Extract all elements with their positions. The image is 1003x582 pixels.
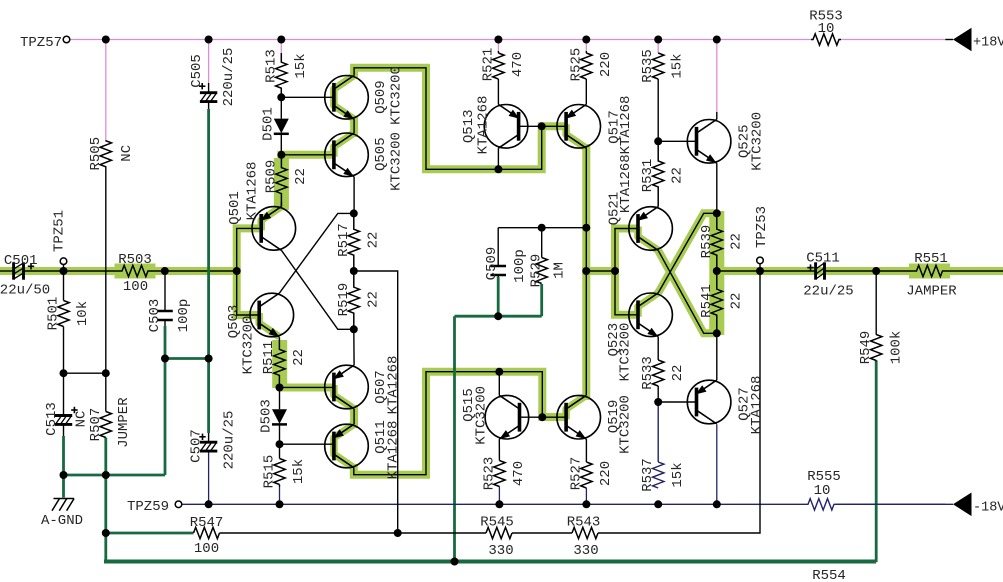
junctions +18V rail xyxy=(102,36,721,44)
svg-text:D501: D501 xyxy=(260,107,276,141)
resistor R545 330 xyxy=(480,515,514,560)
resistor R513 15k xyxy=(263,49,309,97)
transistor Q517 KTA1268 xyxy=(557,96,634,155)
svg-text:C507: C507 xyxy=(189,429,205,463)
wire signal path conductors xyxy=(0,68,1003,475)
transistor Q505 KTC3200 xyxy=(325,132,405,191)
svg-text:22: 22 xyxy=(293,168,309,185)
svg-text:22: 22 xyxy=(291,349,307,366)
svg-text:R519: R519 xyxy=(336,283,352,317)
transistor Q519 KTC3200 xyxy=(557,395,634,454)
resistor R507 JUMPER xyxy=(88,373,132,448)
svg-text:KTC3200: KTC3200 xyxy=(618,395,634,454)
svg-text:KTA1268: KTA1268 xyxy=(749,376,765,435)
resistor R509 22 xyxy=(263,155,308,207)
wire D503 to Q511 base xyxy=(280,443,334,445)
svg-text:R515: R515 xyxy=(262,455,278,489)
svg-text:10k: 10k xyxy=(75,301,91,326)
svg-text:C503: C503 xyxy=(147,299,163,333)
svg-text:R525: R525 xyxy=(568,48,584,82)
wire highlighted signal path xyxy=(0,68,1003,475)
svg-text:JUMPER: JUMPER xyxy=(116,397,132,448)
svg-text:TPZ51: TPZ51 xyxy=(52,210,68,252)
resistor R535 15k xyxy=(640,49,686,141)
svg-text:KTA1268: KTA1268 xyxy=(476,96,492,155)
svg-text:22u/50: 22u/50 xyxy=(0,283,50,299)
wire Q525 base xyxy=(658,140,696,142)
svg-text:R529: R529 xyxy=(529,254,545,288)
svg-text:22: 22 xyxy=(670,167,686,184)
wire Q501 emitter to R509 xyxy=(280,202,282,207)
svg-text:R531: R531 xyxy=(640,159,656,193)
svg-text:R537: R537 xyxy=(640,458,656,492)
svg-text:10: 10 xyxy=(814,483,831,499)
capacitor C503 100p xyxy=(147,271,192,332)
power -18V xyxy=(836,493,1003,517)
svg-text:NC: NC xyxy=(119,145,135,162)
wire Q525 collector xyxy=(716,112,718,119)
svg-text:D503: D503 xyxy=(259,399,275,433)
svg-text:22: 22 xyxy=(728,293,744,310)
svg-text:R527: R527 xyxy=(568,457,584,491)
transistor Q515 KTC3200 xyxy=(461,386,529,445)
svg-text:15k: 15k xyxy=(293,53,309,78)
transistor Q513 KTA1268 xyxy=(461,96,528,155)
resistor R525 220 xyxy=(568,48,614,105)
transistor Q521 KTA1268 xyxy=(607,154,673,250)
wire R513/D501 node to Q509 base xyxy=(281,96,334,98)
wire +18V rail (pink) xyxy=(70,40,945,141)
svg-text:470: 470 xyxy=(511,461,527,486)
transistor Q507 KTA1268 xyxy=(325,356,402,415)
svg-text:22: 22 xyxy=(365,291,381,308)
svg-text:KTC3200: KTC3200 xyxy=(618,323,634,382)
svg-text:KTA1268: KTA1268 xyxy=(245,162,261,221)
wire Q513 collector stub xyxy=(497,148,499,169)
junctions misc nodes xyxy=(60,93,721,448)
wire Q515 base xyxy=(520,416,543,418)
capacitor C509 100p xyxy=(484,228,528,283)
svg-text:R503: R503 xyxy=(118,252,152,268)
svg-text:R547: R547 xyxy=(190,515,224,531)
svg-text:100: 100 xyxy=(194,541,219,557)
resistor R501 10k xyxy=(46,271,92,373)
svg-text:220: 220 xyxy=(598,461,614,486)
svg-text:15k: 15k xyxy=(670,462,686,487)
svg-text:220u/25: 220u/25 xyxy=(221,48,237,107)
svg-text:KTC3200: KTC3200 xyxy=(474,386,490,445)
svg-text:KTA1268: KTA1268 xyxy=(386,421,402,480)
svg-text:KTC3200: KTC3200 xyxy=(389,132,405,191)
svg-text:KTC3200: KTC3200 xyxy=(750,112,766,171)
resistor R539 22 xyxy=(699,213,745,271)
svg-text:TPZ53: TPZ53 xyxy=(754,206,770,248)
resistor R529 1M xyxy=(529,228,568,288)
wire Q505 emitter down xyxy=(353,177,355,214)
svg-text:220u/25: 220u/25 xyxy=(222,411,238,470)
wire Q515 collector stub xyxy=(498,372,500,396)
resistor R515 15k xyxy=(262,444,308,488)
resistor R551 JAMPER xyxy=(906,251,957,300)
svg-text:330: 330 xyxy=(488,543,513,559)
wire R519 node to Q507 emitter xyxy=(353,329,355,365)
svg-text:KTA1268: KTA1268 xyxy=(386,356,402,415)
svg-text:R554: R554 xyxy=(812,568,846,582)
capacitor C501 22u/50 xyxy=(0,253,50,299)
svg-text:1M: 1M xyxy=(552,262,568,279)
svg-text:KTC3200: KTC3200 xyxy=(389,66,405,125)
svg-text:+18V: +18V xyxy=(973,36,1003,51)
resistor R549 100k xyxy=(858,271,905,364)
svg-text:R545: R545 xyxy=(480,515,514,531)
resistor R541 22 xyxy=(699,271,745,333)
svg-text:330: 330 xyxy=(573,543,598,559)
resistor R531 22 xyxy=(640,141,686,206)
wire Q527 base xyxy=(658,401,696,403)
svg-text:100p: 100p xyxy=(176,299,192,333)
svg-text:100: 100 xyxy=(123,279,148,295)
svg-text:R509: R509 xyxy=(263,160,279,194)
svg-text:A-GND: A-GND xyxy=(41,513,83,529)
svg-text:C509: C509 xyxy=(484,247,500,281)
svg-text:15k: 15k xyxy=(670,53,686,78)
test point TPZ51 xyxy=(52,210,68,271)
wire Q503 collector to R517 xyxy=(279,213,353,293)
wire Q513 base to node xyxy=(519,125,542,127)
svg-text:R543: R543 xyxy=(567,515,601,531)
svg-text:R535: R535 xyxy=(640,49,656,83)
wire analog-ground net (dark green) xyxy=(64,109,877,562)
test point TPZ59 xyxy=(127,499,182,515)
svg-text:R507: R507 xyxy=(88,408,104,442)
svg-text:R539: R539 xyxy=(699,225,715,259)
svg-text:100p: 100p xyxy=(512,249,528,283)
svg-text:Q501: Q501 xyxy=(227,191,243,225)
wire Q527 emitter up xyxy=(716,333,718,380)
capacitor C507 220u/25 xyxy=(189,411,238,470)
svg-text:KTA1268: KTA1268 xyxy=(618,96,634,155)
wire R505 to node xyxy=(105,167,107,373)
resistor R517 22 xyxy=(336,213,382,271)
capacitor C513 NC xyxy=(44,373,90,436)
resistor R537 15k xyxy=(640,402,686,492)
resistor R505 NC xyxy=(88,137,135,171)
svg-text:R533: R533 xyxy=(640,356,656,390)
resistor R521 470 xyxy=(480,48,526,105)
svg-text:22: 22 xyxy=(365,232,381,249)
junctions signal line xyxy=(60,267,881,275)
resistor R523 470 xyxy=(481,439,527,490)
transistor Q527 KTA1268 xyxy=(687,376,765,435)
resistor R553 10 xyxy=(809,9,843,46)
svg-text:Q505: Q505 xyxy=(373,137,389,171)
capacitor C511 22u/25 xyxy=(803,251,853,300)
resistor R519 22 xyxy=(336,271,382,329)
svg-text:C511: C511 xyxy=(806,251,840,267)
wire R517/R519 node down xyxy=(354,271,398,533)
resistor R533 22 xyxy=(640,337,686,402)
svg-text:R523: R523 xyxy=(481,457,497,491)
transistor Q509 KTC3200 xyxy=(325,66,405,125)
svg-text:C501: C501 xyxy=(4,253,38,269)
svg-text:C505: C505 xyxy=(189,54,205,88)
svg-text:220: 220 xyxy=(598,52,614,77)
wire Q501 collector to R519 xyxy=(281,250,353,329)
svg-text:R505: R505 xyxy=(88,137,104,171)
wire C509/R529 top link xyxy=(498,227,586,229)
svg-text:R549: R549 xyxy=(858,331,874,365)
transistor Q503 KTC3200 xyxy=(226,293,294,374)
transistor Q511 KTA1268 xyxy=(325,420,402,479)
svg-text:KTA1268: KTA1268 xyxy=(618,154,634,213)
transistor Q501 KTA1268 xyxy=(227,162,296,251)
svg-text:-18V: -18V xyxy=(973,500,1003,515)
junctions ground net xyxy=(60,312,503,565)
svg-text:22: 22 xyxy=(728,233,744,250)
svg-text:C513: C513 xyxy=(44,402,60,436)
power +18V xyxy=(945,28,1003,52)
svg-text:Q509: Q509 xyxy=(373,80,389,114)
wire R501 to R507 node xyxy=(64,372,106,374)
transistor Q525 KTC3200 xyxy=(687,112,765,171)
junctions -18V rail xyxy=(205,500,721,508)
svg-text:470: 470 xyxy=(510,52,526,77)
wire R545 to R543 xyxy=(512,532,572,534)
svg-text:R511: R511 xyxy=(261,341,277,375)
resistor R527 220 xyxy=(568,439,614,490)
svg-text:R513: R513 xyxy=(263,49,279,83)
resistor R543 330 xyxy=(567,515,601,560)
test point TPZ53 xyxy=(754,206,770,271)
svg-text:TPZ59: TPZ59 xyxy=(127,499,169,515)
svg-text:10: 10 xyxy=(818,21,835,37)
svg-text:100k: 100k xyxy=(889,331,905,365)
diode D503 xyxy=(259,388,288,445)
capacitor C505 220u/25 xyxy=(189,48,237,109)
resistor R503 100 xyxy=(115,252,156,295)
wire -18V rail (navy) xyxy=(182,424,946,504)
svg-text:15k: 15k xyxy=(291,459,307,484)
svg-text:JAMPER: JAMPER xyxy=(906,284,957,300)
svg-text:R521: R521 xyxy=(480,48,496,82)
svg-text:TPZ57: TPZ57 xyxy=(20,35,62,51)
svg-text:R501: R501 xyxy=(46,297,62,331)
svg-text:R551: R551 xyxy=(914,251,948,267)
test point TPZ57 xyxy=(20,35,70,51)
wire R543 to output node xyxy=(598,271,760,533)
ground A-GND xyxy=(41,499,83,530)
svg-text:R541: R541 xyxy=(699,284,715,318)
resistor R511 22 xyxy=(261,337,307,387)
diode D501 xyxy=(260,97,289,154)
wire R547 to R545 xyxy=(220,532,487,534)
svg-text:22: 22 xyxy=(670,365,686,382)
resistor R547 100 xyxy=(190,515,224,557)
svg-text:R517: R517 xyxy=(336,223,352,257)
resistor R555 10 xyxy=(806,469,841,510)
svg-text:22u/25: 22u/25 xyxy=(803,284,853,300)
svg-text:KTC3200: KTC3200 xyxy=(241,316,257,375)
wire Q525 emitter xyxy=(716,163,718,213)
transistor Q523 KTC3200 xyxy=(606,293,672,382)
